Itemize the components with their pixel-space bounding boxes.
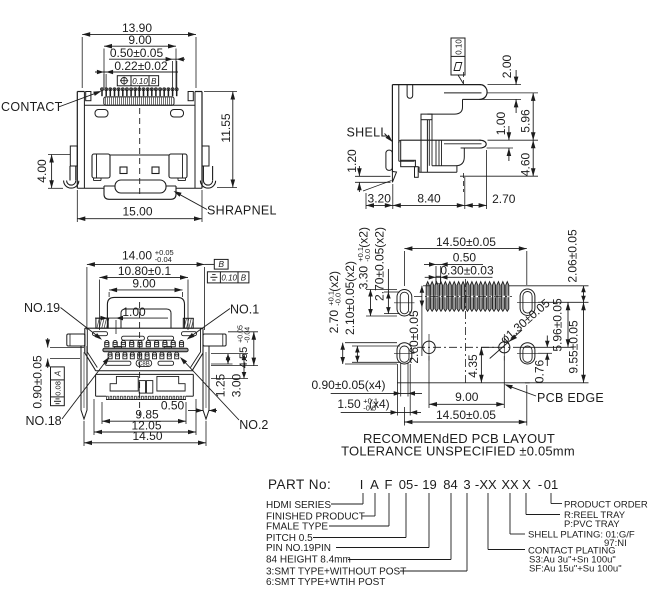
svg-text:84: 84 — [443, 477, 457, 492]
svg-text:2.00: 2.00 — [500, 54, 514, 78]
svg-text:SHELL: SHELL — [347, 126, 388, 140]
dim 0.90 +/-0.05 left rotated with datum A frame — [31, 338, 84, 409]
svg-text:1.50: 1.50 — [337, 397, 361, 411]
contact hatch strip — [104, 97, 174, 105]
rear through legs — [81, 346, 209, 419]
label NO.18 with leader — [26, 357, 110, 428]
logo stamp — [136, 360, 152, 367]
rear side tabs — [67, 334, 226, 346]
left curl ear — [64, 166, 79, 188]
label phi 1.30 diagonal — [490, 296, 553, 359]
dim 14.50 top pcb — [404, 235, 526, 286]
dim 0.22 +/-0.02 pin width — [95, 59, 178, 88]
top terminal pin side view — [444, 85, 487, 100]
svg-text:5.96±0.05: 5.96±0.05 — [551, 298, 565, 352]
part number right labels — [528, 500, 648, 575]
center line rear view — [139, 302, 141, 416]
dim 0.90 x4 — [312, 362, 423, 396]
svg-text:B: B — [241, 274, 247, 283]
svg-text:SF:Au 15u"+Su 100u": SF:Au 15u"+Su 100u" — [529, 564, 622, 575]
svg-text:4.35: 4.35 — [466, 354, 480, 378]
symmetry tolerance frame 0.10 B — [207, 272, 249, 283]
rear contact bar hatched — [103, 347, 188, 352]
hole left — [423, 334, 435, 361]
svg-text:5.96: 5.96 — [518, 109, 532, 133]
svg-text:14.50±0.05: 14.50±0.05 — [436, 408, 496, 422]
dim 10.80 +/-0.1 — [99, 264, 188, 330]
svg-text:14.50: 14.50 — [132, 429, 162, 443]
svg-text:(x2): (x2) — [357, 227, 371, 248]
contact pins row (19 pins) — [101, 88, 179, 96]
svg-text:4.00: 4.00 — [35, 159, 49, 183]
svg-text:NO.2: NO.2 — [239, 418, 268, 432]
svg-text:0.90±0.05: 0.90±0.05 — [31, 355, 45, 409]
svg-text:0.76: 0.76 — [533, 359, 547, 383]
svg-text:3.20: 3.20 — [368, 192, 392, 206]
dim 1.20 side — [345, 149, 391, 192]
dim 2.70 x2 rotated leftmost — [327, 271, 398, 364]
part number left labels — [266, 500, 406, 588]
dim 2.70 x2 rotated second — [373, 227, 400, 314]
dim 0.76 rotated — [533, 336, 552, 384]
svg-text:0.08: 0.08 — [53, 381, 62, 396]
dim 15.00 bottom — [77, 190, 202, 222]
svg-text:B: B — [151, 77, 157, 86]
rear bottom teeth — [106, 396, 186, 399]
dim 4.35 rotated — [466, 347, 498, 383]
svg-text:A: A — [370, 477, 379, 492]
rear slot bars — [105, 361, 174, 365]
svg-text:14.50±0.05: 14.50±0.05 — [436, 235, 496, 249]
dim 4.00 left — [35, 155, 70, 189]
label PCB EDGE with leader — [505, 384, 605, 405]
svg-text:+0.05: +0.05 — [238, 325, 245, 343]
svg-text:1.25: 1.25 — [214, 373, 228, 397]
svg-text:2.06±0.05: 2.06±0.05 — [566, 229, 580, 283]
dim 4.55 rotated right — [211, 325, 258, 368]
dim 9.00 rear — [109, 277, 182, 297]
dim 1.50 x4 — [337, 364, 421, 416]
dim 2.10 x2 rotated — [343, 261, 400, 362]
svg-text:PART No:: PART No: — [268, 477, 331, 492]
shrapnel latch bar — [115, 180, 166, 193]
svg-text:2.10±0.05(x2): 2.10±0.05(x2) — [343, 261, 357, 335]
lower terminal pin side view — [401, 140, 487, 148]
right curl ear — [200, 166, 215, 188]
svg-text:F: F — [385, 477, 393, 492]
svg-text:P:PVC TRAY: P:PVC TRAY — [564, 519, 620, 530]
svg-text:0.30±0.03: 0.30±0.03 — [440, 263, 494, 277]
dim 9.85 — [102, 402, 186, 424]
svg-text:9.55±0.05: 9.55±0.05 — [567, 320, 581, 374]
svg-text:14.00: 14.00 — [122, 249, 152, 263]
upper step of housing — [427, 99, 462, 114]
position tolerance frame 0.10 B — [117, 76, 158, 97]
label NO.1 with leader — [187, 303, 259, 340]
svg-text:-: - — [414, 477, 418, 492]
svg-text:XX: XX — [479, 477, 497, 492]
dim 1.00 rear — [95, 305, 168, 334]
svg-text:0.90±0.05(x4): 0.90±0.05(x4) — [312, 378, 386, 392]
svg-text:2.70: 2.70 — [327, 310, 341, 334]
svg-text:NO.19: NO.19 — [24, 301, 60, 315]
svg-text:1.00: 1.00 — [494, 111, 508, 135]
svg-text:NO.1: NO.1 — [230, 303, 259, 317]
svg-text:XX: XX — [501, 477, 519, 492]
right oval pad top — [517, 289, 538, 316]
svg-text:SHRAPNEL: SHRAPNEL — [207, 204, 277, 218]
svg-text:05: 05 — [399, 477, 413, 492]
svg-text:CONTACT: CONTACT — [1, 100, 63, 114]
svg-text:3:SMT TYPE+WITHOUT POST: 3:SMT TYPE+WITHOUT POST — [266, 567, 406, 578]
dim 5.96 rotated pcb — [516, 298, 573, 352]
svg-text:(x4): (x4) — [369, 397, 390, 411]
dim 4.60 side — [460, 140, 538, 176]
svg-text:2.70: 2.70 — [492, 192, 516, 206]
bottom spring tip — [392, 172, 396, 183]
svg-text:FMALE TYPE: FMALE TYPE — [266, 522, 328, 533]
shell slots — [95, 110, 184, 118]
pcb center lines — [414, 279, 516, 385]
side view shell outline — [392, 85, 481, 172]
side shrapnel bump — [386, 150, 393, 170]
svg-text:0.50: 0.50 — [161, 399, 185, 413]
svg-text:8.40: 8.40 — [417, 192, 441, 206]
label NO.2 with leader — [180, 357, 268, 432]
side view center line dashes — [463, 72, 465, 84]
svg-text:-0.0: -0.0 — [363, 249, 372, 262]
dim 1.25 and 3.00 rotated — [211, 354, 248, 398]
svg-text:19: 19 — [422, 477, 436, 492]
svg-text:NO.18: NO.18 — [26, 414, 62, 428]
svg-text:3: 3 — [463, 477, 470, 492]
rear view tongue — [107, 297, 184, 328]
flatness tolerance frame rotated — [451, 38, 465, 84]
svg-text:2.60±0.05: 2.60±0.05 — [407, 310, 421, 364]
dim 0.30 pcb pad width — [425, 263, 494, 283]
dim 14.50 rear — [84, 421, 206, 446]
left oval pad bottom — [394, 343, 415, 364]
dims 3.20 8.40 2.70 bottom of side view — [366, 150, 516, 209]
svg-text:0.10: 0.10 — [132, 77, 148, 86]
rear lower pin row — [108, 352, 179, 359]
svg-text:3.30: 3.30 — [357, 266, 371, 290]
svg-text:1.00: 1.00 — [122, 305, 146, 319]
hole right phi 1.30 — [499, 334, 510, 361]
dim 13.90 — [82, 21, 196, 88]
svg-text:1.20: 1.20 — [345, 149, 359, 173]
dim 14.00 with tolerance — [87, 248, 214, 330]
svg-text:15.00: 15.00 — [122, 205, 152, 219]
dim 9.00 pcb — [429, 356, 504, 408]
svg-text:3.00: 3.00 — [230, 373, 244, 397]
rear upper pin row — [105, 341, 184, 347]
svg-text:6:SMT TYPE+WTIH POST: 6:SMT TYPE+WTIH POST — [266, 577, 385, 588]
svg-text:-: - — [538, 477, 542, 492]
svg-text:I: I — [360, 477, 364, 492]
label CONTACT with leader — [1, 91, 102, 114]
svg-text:TOLERANCE UNSPECIFIED ±0.05mm: TOLERANCE UNSPECIFIED ±0.05mm — [341, 444, 575, 459]
dim 2.00 side — [463, 54, 521, 113]
svg-text:B: B — [218, 259, 224, 269]
dim 12.05 — [94, 399, 196, 435]
svg-text:-0.0: -0.0 — [334, 293, 343, 306]
dim 9.55 rotated right — [525, 302, 589, 383]
right oval pad bottom — [517, 343, 538, 364]
svg-text:2.70±0.05(x2): 2.70±0.05(x2) — [373, 227, 387, 301]
pcb pads comb — [426, 282, 509, 312]
center line front view — [139, 108, 141, 196]
dim 1.00 side — [487, 111, 513, 161]
svg-text:-0.04: -0.04 — [155, 255, 172, 264]
dim 0.50 pcb pitch — [424, 251, 483, 285]
front view shell body — [70, 92, 209, 200]
svg-text:X: X — [522, 477, 531, 492]
dim 9.00 top — [104, 33, 176, 88]
dim 14.50 bottom pcb — [404, 385, 526, 426]
svg-text:(x2): (x2) — [327, 271, 341, 292]
svg-text:PRODUCT ORDER: PRODUCT ORDER — [564, 500, 648, 511]
dim 3.30 x2 rotated — [356, 227, 397, 316]
label SHELL with leader — [347, 126, 393, 143]
svg-text:4.60: 4.60 — [518, 152, 532, 176]
label NO.19 with leader — [24, 301, 102, 340]
svg-text:01: 01 — [544, 477, 558, 492]
svg-text:PCB EDGE: PCB EDGE — [537, 391, 604, 405]
svg-text:PIN NO.19PIN: PIN NO.19PIN — [266, 543, 331, 554]
svg-text:0.50: 0.50 — [453, 251, 477, 265]
svg-text:0.22±0.02: 0.22±0.02 — [114, 59, 168, 73]
svg-text:9.00: 9.00 — [128, 33, 152, 47]
pcb edge line — [397, 382, 530, 384]
dim 2.60 rotated — [407, 286, 430, 364]
svg-text:0.10: 0.10 — [455, 39, 464, 55]
svg-text:-0.04: -0.04 — [245, 327, 252, 343]
latch tabs and windows — [92, 154, 187, 181]
part code leader lines — [313, 493, 562, 571]
svg-text:0.10: 0.10 — [221, 274, 237, 283]
left oval pad top — [394, 290, 415, 317]
part number title and code — [268, 477, 558, 492]
note recommended pcb layout — [341, 431, 575, 459]
dim 11.55 height — [204, 92, 237, 188]
svg-text:9.00: 9.00 — [455, 390, 479, 404]
lower housing body side view — [399, 140, 465, 177]
svg-text:HDMI SERIES: HDMI SERIES — [266, 500, 331, 511]
dim 0.50 rear leg — [161, 399, 217, 413]
svg-text:11.55: 11.55 — [219, 113, 233, 142]
contact tip box and contacts — [421, 114, 442, 172]
rear lower housing — [96, 374, 194, 396]
dim 0.50 +/-0.05 pin pitch — [109, 46, 185, 88]
svg-text:A: A — [54, 371, 63, 377]
svg-text:9.00: 9.00 — [132, 277, 156, 291]
dim 2.06 rotated right — [509, 229, 589, 302]
rear view shell — [85, 318, 203, 374]
svg-text:84 HEIGHT 8.4mm: 84 HEIGHT 8.4mm — [266, 555, 351, 566]
datum B box — [214, 259, 228, 269]
dim 5.96 side — [488, 93, 539, 140]
label SHRAPNEL with leader — [174, 191, 277, 218]
